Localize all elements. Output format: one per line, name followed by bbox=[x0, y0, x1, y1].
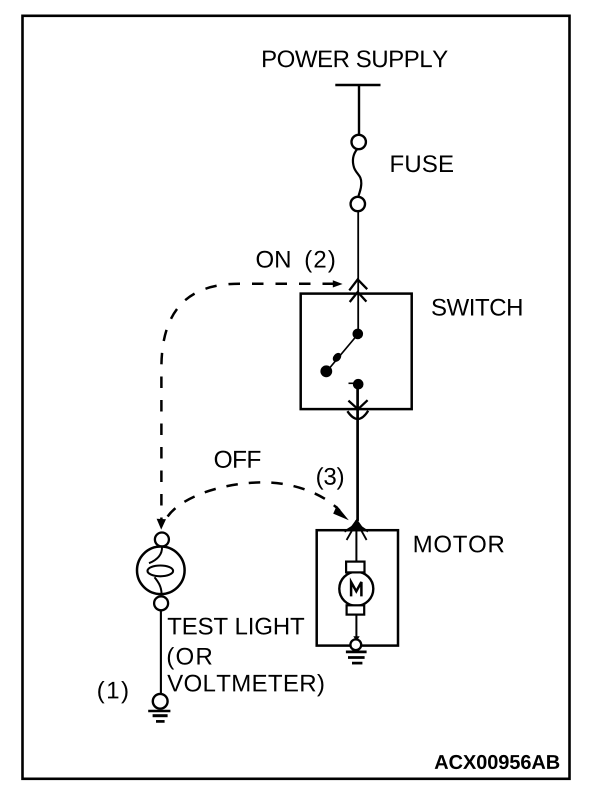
label (3): "(3)" bbox=[317, 467, 343, 489]
motor M1 bbox=[339, 562, 373, 615]
wire switch bottom contact to motor bbox=[356, 387, 359, 521]
junction arrow above motor ground bbox=[353, 636, 359, 641]
connector arrows at motor top bbox=[345, 519, 369, 540]
test light label line 2: "(OR" bbox=[168, 647, 212, 669]
wire motor box top to motor terminal bbox=[355, 520, 357, 563]
fuse label: "FUSE" bbox=[391, 155, 453, 172]
test light label line 1: "TEST LIGHT" bbox=[168, 618, 304, 635]
wire motor to ground bbox=[355, 615, 357, 638]
connector arrows at switch top bbox=[349, 279, 367, 302]
power supply label: "POWER SUPPLY" bbox=[263, 50, 448, 67]
label (2): "(2)" bbox=[306, 250, 335, 272]
connector arrows at switch bottom bbox=[347, 400, 368, 419]
figure code ACX00956AB: "ACX00956AB" bbox=[435, 755, 560, 769]
switch box bbox=[301, 294, 412, 410]
power supply terminal bar bbox=[335, 84, 380, 87]
motor box bbox=[317, 530, 398, 645]
wire test light to ground bbox=[160, 610, 162, 694]
switch lever mid bead bbox=[331, 351, 343, 363]
motor label: "MOTOR" bbox=[415, 536, 504, 553]
switch lever bbox=[328, 337, 357, 371]
wire power supply to fuse bbox=[358, 85, 360, 136]
label ON: "ON" bbox=[257, 251, 290, 268]
fuse bbox=[351, 135, 366, 211]
ground motor bbox=[346, 639, 367, 663]
dashed arrow ON (2) bbox=[157, 280, 343, 529]
test light bbox=[137, 533, 185, 611]
switch bottom contact bbox=[349, 379, 364, 390]
wire fuse to switch bbox=[357, 211, 359, 334]
ground test light bbox=[148, 694, 170, 722]
switch top contact bbox=[353, 329, 364, 340]
test light label line 3: "VOLTMETER)" bbox=[167, 674, 323, 696]
switch lever end contact bbox=[320, 365, 332, 377]
switch label: "SWITCH" bbox=[432, 299, 521, 316]
label (1): "(1)" bbox=[98, 681, 127, 703]
label OFF: "OFF" bbox=[215, 451, 261, 468]
dashed arrow OFF (3) bbox=[168, 482, 349, 520]
